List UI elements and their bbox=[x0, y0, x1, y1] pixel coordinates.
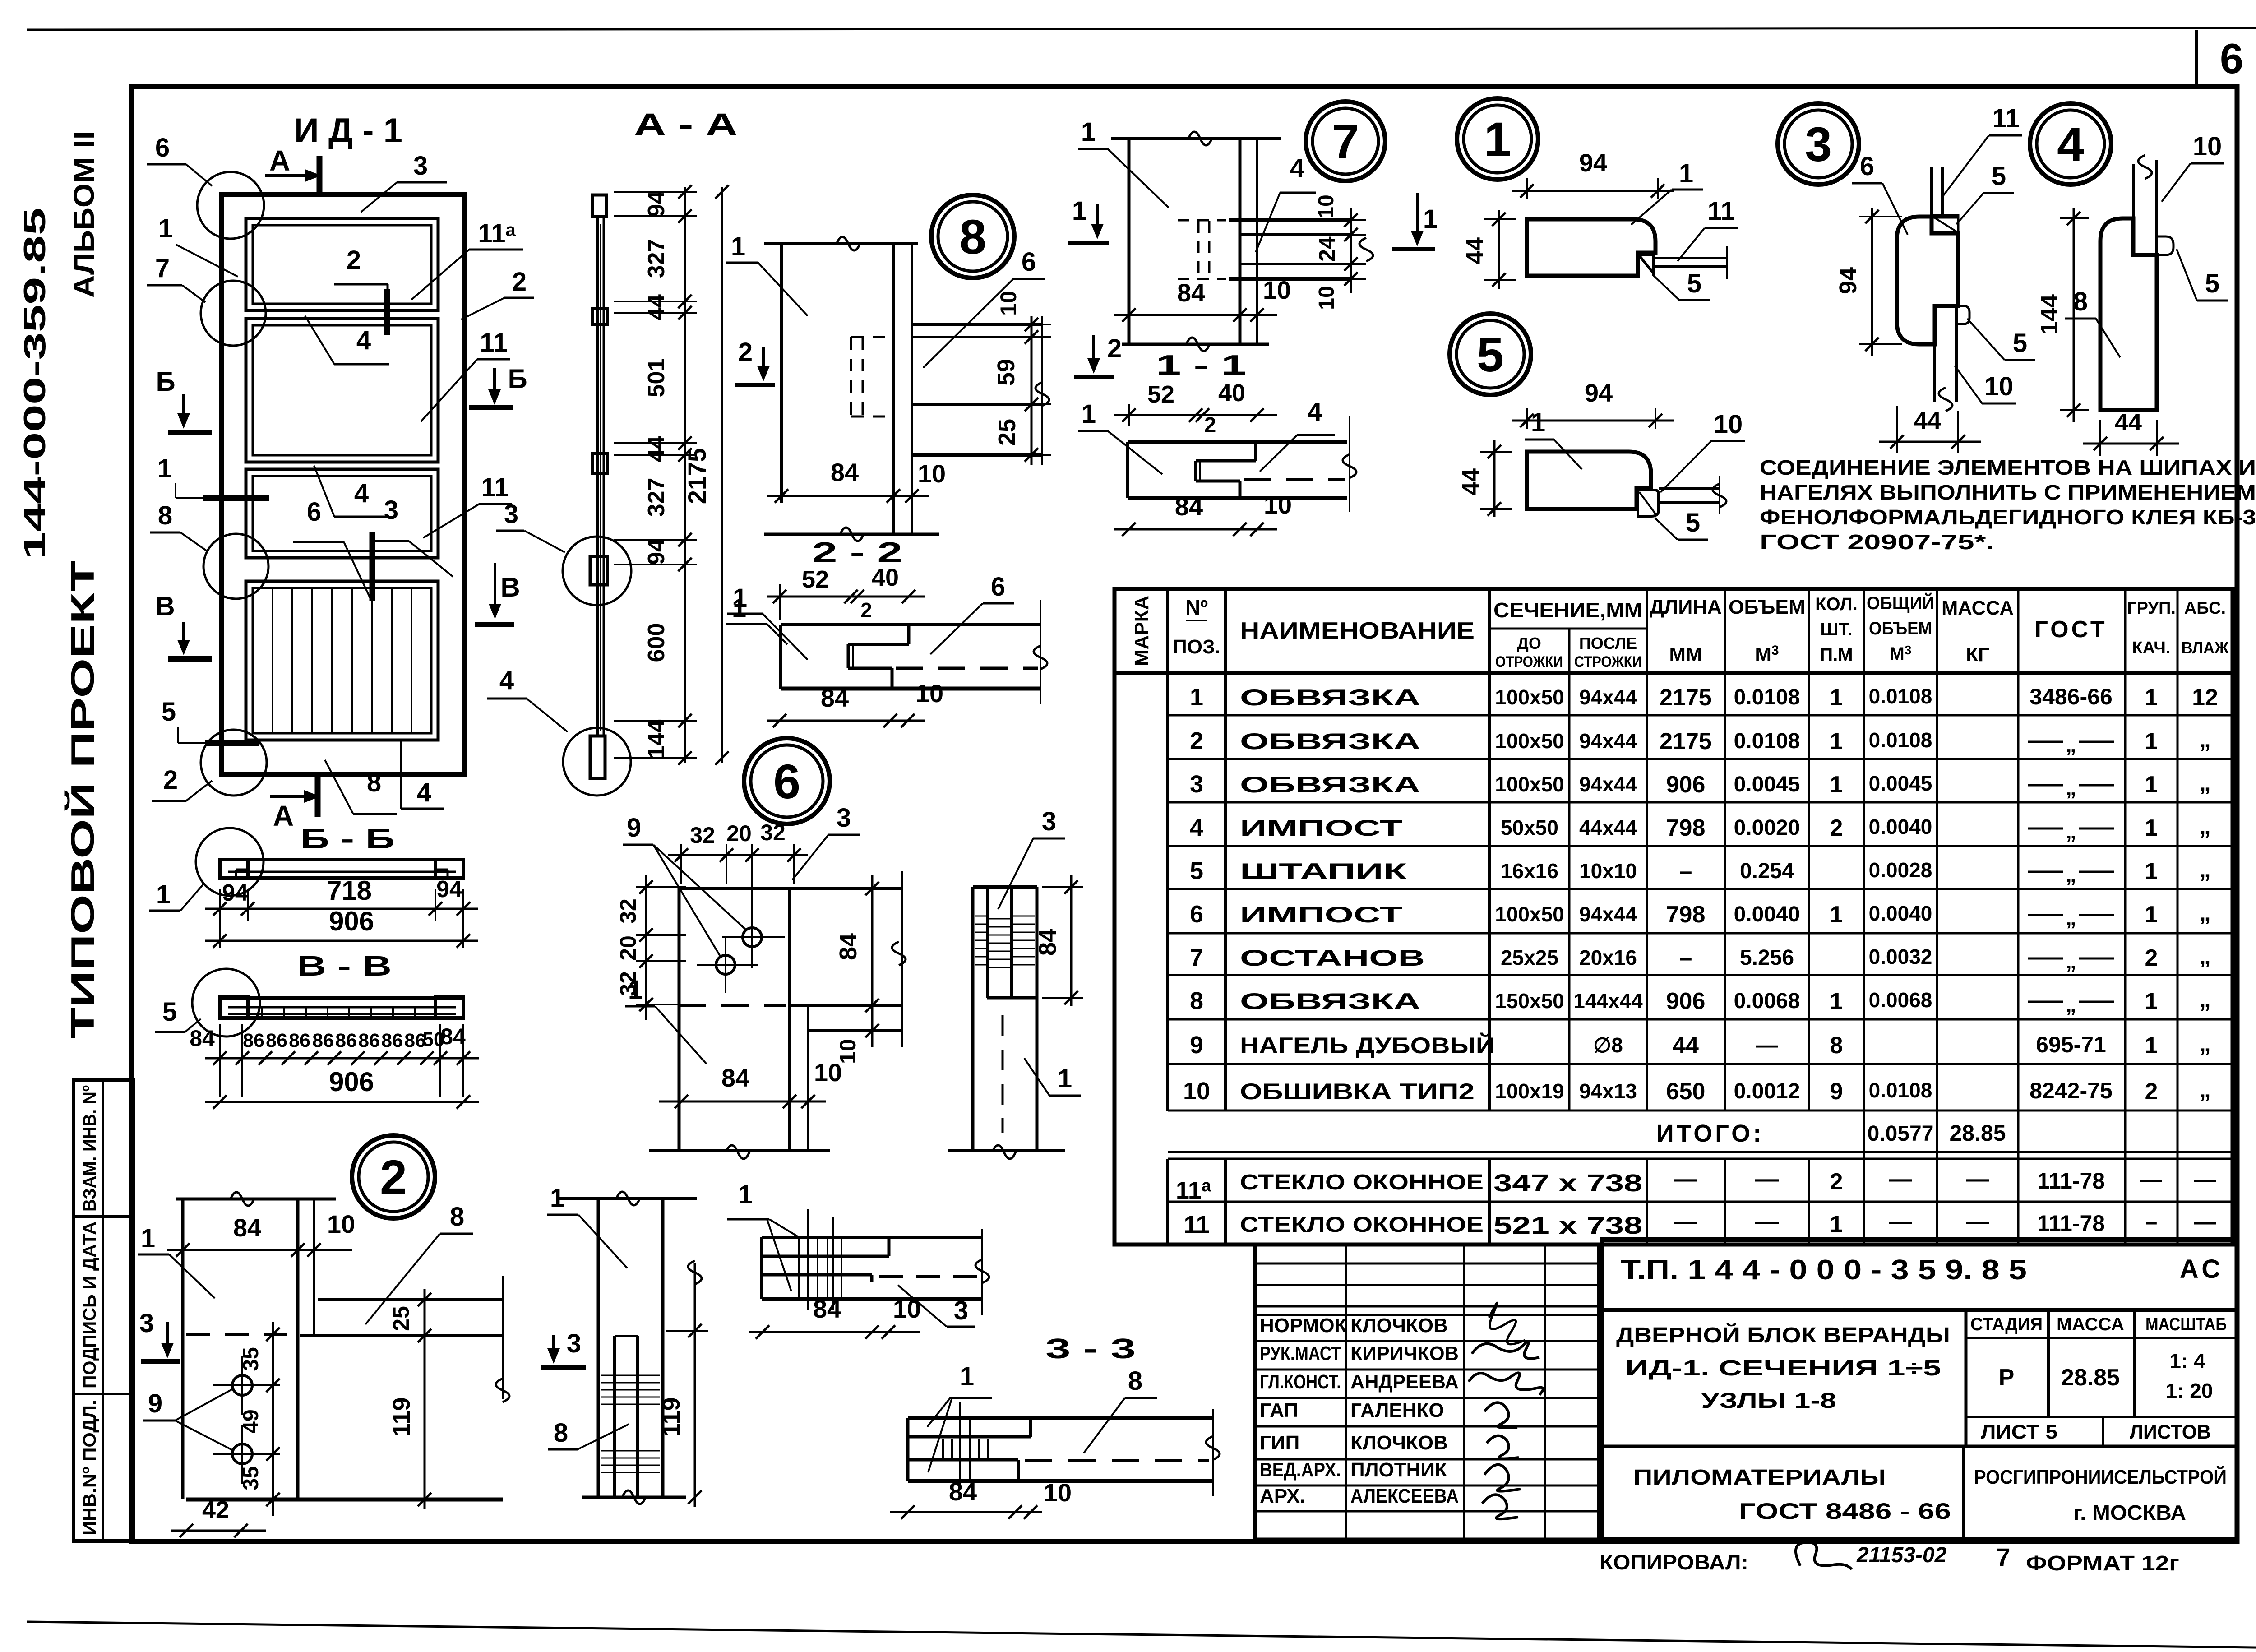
svg-text:ПОДПИСЬ И ДАТА: ПОДПИСЬ И ДАТА bbox=[80, 1222, 100, 1388]
svg-text:1 - 1: 1 - 1 bbox=[1156, 350, 1246, 381]
node ref circle 3 on A-A bbox=[563, 537, 631, 605]
svg-text:КАЧ.: КАЧ. bbox=[2132, 639, 2171, 657]
1-1 bar drawing bbox=[1128, 440, 1347, 444]
node 8 impost branch bbox=[912, 323, 1042, 326]
svg-text:84: 84 bbox=[949, 1477, 977, 1506]
svg-text:0.0577: 0.0577 bbox=[1868, 1122, 1934, 1146]
svg-text:1: 20: 1: 20 bbox=[2166, 1379, 2213, 1402]
svg-text:2: 2 bbox=[347, 245, 361, 275]
Б-Б dimension 906 bbox=[205, 940, 478, 942]
node 1 glass strip bbox=[1655, 257, 1727, 259]
door pane 3 sash bbox=[246, 469, 438, 558]
node 7 stile lines bbox=[1111, 137, 1281, 140]
svg-text:119: 119 bbox=[388, 1397, 415, 1436]
svg-text:1: 1 bbox=[1531, 408, 1545, 437]
svg-text:ГАП: ГАП bbox=[1260, 1399, 1298, 1421]
svg-text:В - В: В - В bbox=[297, 951, 392, 982]
svg-text:МАРКА: МАРКА bbox=[1131, 596, 1153, 666]
svg-text:ПОЗ.: ПОЗ. bbox=[1173, 636, 1220, 658]
svg-text:2: 2 bbox=[1107, 334, 1122, 363]
svg-text:ГОСТ 20907-75*.: ГОСТ 20907-75*. bbox=[1760, 530, 1994, 554]
svg-text:0.0108: 0.0108 bbox=[1869, 1078, 1932, 1102]
svg-text:—: — bbox=[1966, 1166, 1989, 1192]
svg-text:1: 1 bbox=[1081, 117, 1096, 147]
node ref circle 8 on elevation bbox=[203, 534, 268, 599]
svg-text:8: 8 bbox=[1190, 987, 1203, 1014]
svg-text:АБС.: АБС. bbox=[2184, 599, 2226, 618]
svg-text:МАССА: МАССА bbox=[1942, 597, 2014, 619]
rail piece cut trace lines bbox=[807, 1209, 809, 1310]
svg-text:АС: АС bbox=[2180, 1254, 2224, 1284]
node 2 top dimension 84 10 bbox=[167, 1249, 352, 1251]
svg-text:ОТРОЖКИ: ОТРОЖКИ bbox=[1495, 653, 1563, 671]
svg-text:44: 44 bbox=[643, 436, 670, 462]
svg-text:21153-02: 21153-02 bbox=[1856, 1543, 1947, 1567]
svg-text:327: 327 bbox=[643, 239, 670, 278]
node 8 bottom dimension 84 10 bbox=[767, 495, 929, 497]
svg-text:49: 49 bbox=[239, 1409, 263, 1433]
svg-text:МАСШТАБ: МАСШТАБ bbox=[2145, 1314, 2227, 1334]
svg-text:8: 8 bbox=[1830, 1032, 1843, 1059]
svg-text:ДЛИНА: ДЛИНА bbox=[1650, 596, 1722, 618]
svg-text:1: 1 bbox=[1484, 112, 1511, 167]
title block outline bbox=[1602, 1240, 2237, 1540]
svg-text:25х25: 25х25 bbox=[1501, 946, 1558, 969]
node 5 dimension 94 bbox=[1526, 408, 1528, 429]
svg-text:„: „ bbox=[2066, 863, 2076, 886]
svg-text:32: 32 bbox=[690, 823, 715, 848]
node 6 bottom dimension 84 10 bbox=[659, 1101, 826, 1103]
svg-text:Б - Б: Б - Б bbox=[300, 824, 395, 855]
svg-text:5: 5 bbox=[1687, 269, 1701, 298]
svg-text:—: — bbox=[2194, 1168, 2216, 1192]
svg-text:1: 1 bbox=[2145, 1032, 2158, 1059]
svg-text:1: 1 bbox=[156, 880, 171, 909]
svg-text:111-78: 111-78 bbox=[2037, 1168, 2105, 1194]
svg-text:7: 7 bbox=[1332, 114, 1359, 169]
svg-text:35: 35 bbox=[239, 1347, 263, 1371]
node 6 plan drawing bbox=[679, 887, 902, 890]
svg-text:86: 86 bbox=[358, 1030, 380, 1051]
svg-text:А: А bbox=[269, 144, 290, 177]
1-1 bottom dimension 84 10 bbox=[1114, 528, 1277, 531]
svg-text:СТЕКЛО ОКОННОЕ: СТЕКЛО ОКОННОЕ bbox=[1240, 1213, 1484, 1237]
sheet number box divider bbox=[2195, 30, 2198, 88]
svg-text:650: 650 bbox=[1666, 1078, 1706, 1105]
svg-text:1: 1 bbox=[2145, 988, 2158, 1014]
table header subdivision line bbox=[1489, 628, 1647, 630]
svg-text:1: 4: 1: 4 bbox=[2169, 1349, 2205, 1373]
node 8 circle bbox=[931, 195, 1014, 278]
svg-text:0.0108: 0.0108 bbox=[1734, 729, 1800, 753]
svg-text:2: 2 bbox=[1830, 815, 1843, 841]
svg-text:906: 906 bbox=[1666, 988, 1706, 1014]
svg-text:86: 86 bbox=[243, 1030, 264, 1051]
svg-text:94х44: 94х44 bbox=[1579, 902, 1637, 926]
svg-text:ОСТАНОВ: ОСТАНОВ bbox=[1240, 945, 1425, 971]
svg-text:94х13: 94х13 bbox=[1579, 1079, 1637, 1103]
svg-text:0.0032: 0.0032 bbox=[1869, 945, 1932, 968]
svg-text:5: 5 bbox=[1992, 162, 2006, 191]
svg-text:10: 10 bbox=[1183, 1078, 1210, 1105]
svg-text:86: 86 bbox=[312, 1030, 334, 1051]
svg-text:86: 86 bbox=[335, 1030, 357, 1051]
node 4 dimension 44 bbox=[2083, 443, 2179, 445]
svg-text:1: 1 bbox=[1679, 159, 1693, 188]
svg-text:И Д - 1: И Д - 1 bbox=[294, 111, 402, 150]
svg-text:МАССА: МАССА bbox=[2057, 1314, 2124, 1334]
svg-text:ДО: ДО bbox=[1517, 634, 1541, 652]
svg-text:0.0028: 0.0028 bbox=[1869, 858, 1932, 882]
node 4 cladding strip up bbox=[2132, 164, 2135, 255]
svg-text:0.0040: 0.0040 bbox=[1869, 815, 1932, 838]
svg-text:0.0108: 0.0108 bbox=[1734, 685, 1800, 709]
mid stile hatch lower bbox=[601, 1450, 660, 1452]
svg-text:П.М: П.М bbox=[1820, 645, 1853, 665]
svg-text:10: 10 bbox=[327, 1210, 355, 1238]
mid stile dimension 119 bbox=[694, 1263, 696, 1507]
node ref circle 6 on elevation bbox=[197, 172, 264, 239]
svg-text:–: – bbox=[1679, 945, 1692, 971]
svg-text:ИМПОСТ: ИМПОСТ bbox=[1240, 815, 1402, 841]
svg-text:600: 600 bbox=[643, 623, 670, 662]
paper top edge line bbox=[27, 28, 2256, 30]
node 8 hidden tenon dashed bbox=[850, 337, 852, 416]
svg-text:84: 84 bbox=[1177, 278, 1205, 307]
svg-text:28.85: 28.85 bbox=[1949, 1120, 2006, 1146]
signature table grid bbox=[1255, 1245, 1599, 1540]
svg-text:84: 84 bbox=[835, 933, 862, 960]
node 2 stile lines bbox=[176, 1198, 336, 1201]
svg-text:ДВЕРНОЙ БЛОК ВЕРАНДЫ: ДВЕРНОЙ БЛОК ВЕРАНДЫ bbox=[1616, 1323, 1950, 1347]
svg-text:0.0108: 0.0108 bbox=[1869, 728, 1932, 752]
svg-text:1: 1 bbox=[2145, 728, 2158, 754]
svg-text:0.0068: 0.0068 bbox=[1734, 989, 1800, 1013]
node 3 circle bbox=[1778, 103, 1859, 185]
svg-text:4: 4 bbox=[417, 778, 431, 807]
svg-text:ОБШИВКА ТИП2: ОБШИВКА ТИП2 bbox=[1240, 1079, 1475, 1104]
svg-text:ИНВ.Nº ПОДЛ.: ИНВ.Nº ПОДЛ. bbox=[80, 1400, 100, 1535]
svg-text:6: 6 bbox=[991, 572, 1005, 602]
svg-text:УЗЛЫ 1-8: УЗЛЫ 1-8 bbox=[1701, 1389, 1836, 1413]
svg-text:94: 94 bbox=[643, 539, 670, 565]
svg-text:3: 3 bbox=[1190, 771, 1203, 798]
svg-text:ММ: ММ bbox=[1669, 643, 1702, 666]
svg-text:44: 44 bbox=[1461, 237, 1489, 264]
svg-text:Nº: Nº bbox=[1185, 596, 1208, 619]
node 2 hidden dashed line bbox=[186, 1333, 292, 1336]
node 6 right dimension 84 10 bbox=[871, 875, 874, 1047]
node 5 piece drawing bbox=[1527, 452, 1651, 509]
svg-text:ВЛАЖ: ВЛАЖ bbox=[2182, 639, 2229, 657]
svg-text:3: 3 bbox=[413, 151, 428, 180]
svg-text:1: 1 bbox=[157, 454, 172, 483]
svg-text:84: 84 bbox=[721, 1064, 749, 1092]
node 1 circle bbox=[1457, 98, 1538, 180]
svg-text:5.256: 5.256 bbox=[1740, 946, 1794, 970]
svg-text:94х44: 94х44 bbox=[1579, 729, 1637, 753]
svg-text:94: 94 bbox=[436, 876, 462, 902]
svg-text:6: 6 bbox=[1860, 152, 1874, 181]
2-2 hidden line dashed bbox=[896, 667, 1038, 670]
svg-text:1: 1 bbox=[733, 583, 747, 613]
svg-text:1: 1 bbox=[2145, 858, 2158, 884]
svg-text:ТИПОВОЙ ПРОЕКТ: ТИПОВОЙ ПРОЕКТ bbox=[64, 560, 101, 1039]
2-2 step cut bbox=[907, 625, 911, 644]
svg-text:20х16: 20х16 bbox=[1579, 946, 1637, 969]
svg-text:1: 1 bbox=[960, 1362, 974, 1391]
svg-text:7: 7 bbox=[155, 254, 170, 283]
svg-text:В: В bbox=[155, 591, 175, 621]
A-A door leaf profile bbox=[596, 217, 599, 736]
svg-text:КЛОЧКОВ: КЛОЧКОВ bbox=[1350, 1314, 1448, 1337]
3-3 dimension 84 10 bbox=[890, 1511, 1042, 1513]
svg-text:„: „ bbox=[2199, 813, 2211, 839]
svg-text:АЛЕКСЕЕВА: АЛЕКСЕЕВА bbox=[1350, 1485, 1459, 1507]
svg-text:5: 5 bbox=[2205, 269, 2219, 298]
svg-text:1: 1 bbox=[2145, 815, 2158, 841]
node 3 tenon strip up bbox=[1930, 167, 1933, 233]
svg-text:86: 86 bbox=[289, 1030, 310, 1051]
svg-text:2: 2 bbox=[380, 1150, 407, 1204]
svg-text:44: 44 bbox=[2115, 409, 2142, 436]
2-2 top dimension 52 2 40 bbox=[767, 596, 925, 598]
svg-text:84: 84 bbox=[813, 1295, 841, 1323]
svg-text:ГРУП.: ГРУП. bbox=[2127, 599, 2176, 618]
node 1 piece drawing bbox=[1527, 219, 1655, 276]
svg-text:А - А: А - А bbox=[634, 107, 738, 142]
door pane 4 boarded panel bbox=[246, 581, 438, 740]
svg-text:ЛИСТ 5: ЛИСТ 5 bbox=[1981, 1421, 2057, 1443]
svg-text:Р: Р bbox=[1999, 1365, 2015, 1391]
svg-text:1: 1 bbox=[1830, 685, 1843, 711]
svg-text:„: „ bbox=[2066, 906, 2076, 930]
svg-text:9: 9 bbox=[148, 1389, 162, 1418]
hinge mark upper bbox=[384, 289, 390, 335]
mid stile tenon bbox=[613, 1336, 616, 1497]
svg-text:84: 84 bbox=[821, 684, 849, 712]
node 3 dimension 94 bbox=[1871, 208, 1873, 356]
svg-text:94х44: 94х44 bbox=[1579, 773, 1637, 796]
node 8 stile lines bbox=[764, 242, 918, 245]
svg-text:1: 1 bbox=[1190, 684, 1203, 711]
svg-text:2175: 2175 bbox=[1660, 728, 1712, 754]
svg-text:10: 10 bbox=[1714, 410, 1743, 439]
svg-text:—: — bbox=[1889, 1166, 1912, 1192]
svg-text:1: 1 bbox=[141, 1224, 155, 1253]
svg-text:0.0045: 0.0045 bbox=[1734, 773, 1800, 796]
3-3 cut trace lines bbox=[959, 1402, 961, 1489]
svg-text:16х16: 16х16 bbox=[1501, 859, 1558, 883]
svg-text:25: 25 bbox=[994, 419, 1021, 446]
svg-text:3: 3 bbox=[504, 500, 518, 529]
svg-text:6: 6 bbox=[1022, 247, 1036, 277]
title block лист row bbox=[1966, 1416, 2237, 1418]
svg-text:906: 906 bbox=[329, 906, 374, 936]
svg-text:3: 3 bbox=[1805, 117, 1832, 171]
svg-text:„: „ bbox=[2199, 727, 2211, 753]
svg-text:1: 1 bbox=[2145, 902, 2158, 928]
svg-text:АНДРЕЕВА: АНДРЕЕВА bbox=[1350, 1371, 1459, 1393]
svg-text:4: 4 bbox=[354, 479, 369, 508]
svg-text:84: 84 bbox=[190, 1026, 215, 1051]
specification table grid bbox=[1114, 589, 2233, 1245]
svg-text:521 х 738: 521 х 738 bbox=[1493, 1212, 1642, 1239]
svg-text:52: 52 bbox=[802, 566, 829, 593]
svg-text:798: 798 bbox=[1666, 902, 1706, 928]
svg-text:4: 4 bbox=[1308, 397, 1322, 426]
svg-text:144х44: 144х44 bbox=[1573, 989, 1643, 1013]
svg-text:ГОСТ: ГОСТ bbox=[2034, 616, 2107, 643]
svg-text:10: 10 bbox=[1264, 491, 1292, 519]
svg-text:8: 8 bbox=[959, 209, 986, 264]
svg-text:КЛОЧКОВ: КЛОЧКОВ bbox=[1350, 1432, 1448, 1454]
node 6 side hidden tenon dashed bbox=[1002, 1015, 1004, 1133]
svg-text:8: 8 bbox=[554, 1418, 568, 1448]
mid stile hatch upper bbox=[601, 1375, 660, 1376]
svg-text:4: 4 bbox=[499, 666, 514, 695]
title block материалы cell bbox=[1602, 1445, 2237, 1448]
door pane 1 sash bbox=[246, 218, 438, 310]
svg-text:СТЕКЛО ОКОННОЕ: СТЕКЛО ОКОННОЕ bbox=[1240, 1171, 1484, 1194]
svg-text:—: — bbox=[1755, 1166, 1779, 1192]
svg-text:20: 20 bbox=[615, 935, 641, 961]
svg-text:ПОСЛЕ: ПОСЛЕ bbox=[1579, 634, 1637, 652]
svg-text:119: 119 bbox=[658, 1397, 685, 1436]
rail piece hidden dashed bbox=[879, 1275, 980, 1278]
node 5 cladding strip bbox=[1659, 487, 1720, 490]
node 8 right dimension chain 10 59 25 bbox=[1011, 324, 1051, 325]
svg-text:„: „ bbox=[2199, 770, 2211, 796]
svg-text:СОЕДИНЕНИЕ ЭЛЕМЕНТОВ НА ШИПАХ: СОЕДИНЕНИЕ ЭЛЕМЕНТОВ НА ШИПАХ И bbox=[1760, 456, 2256, 479]
svg-text:„: „ bbox=[2199, 943, 2211, 969]
svg-text:2: 2 bbox=[1830, 1169, 1843, 1195]
svg-text:ОБВЯЗКА: ОБВЯЗКА bbox=[1240, 772, 1420, 797]
node 2 bottom dimension 42 bbox=[171, 1530, 266, 1532]
svg-text:501: 501 bbox=[643, 358, 670, 398]
node 2 nagel holes bbox=[232, 1375, 252, 1395]
svg-text:РОСГИПРОНИИСЕЛЬСТРОЙ: РОСГИПРОНИИСЕЛЬСТРОЙ bbox=[1974, 1465, 2227, 1488]
svg-text:ГАЛЕНКО: ГАЛЕНКО bbox=[1350, 1399, 1444, 1421]
svg-text:„: „ bbox=[2066, 949, 2076, 973]
svg-text:ШТАПИК: ШТАПИК bbox=[1240, 859, 1407, 884]
svg-text:11: 11 bbox=[1183, 1211, 1209, 1238]
svg-text:1: 1 bbox=[1830, 728, 1843, 754]
node 5 shtapik piece bbox=[1638, 490, 1659, 516]
svg-text:—: — bbox=[2140, 1168, 2162, 1192]
svg-text:ИМПОСТ: ИМПОСТ bbox=[1240, 902, 1402, 927]
node 4 dimension 144 bbox=[2073, 208, 2075, 422]
mid stile bottom line bbox=[582, 1496, 686, 1499]
svg-text:10: 10 bbox=[915, 679, 943, 708]
node ref circle 1 on Б-Б bbox=[196, 828, 264, 896]
копировал signature bbox=[1796, 1542, 1852, 1569]
В-В board ticks bbox=[261, 1007, 263, 1018]
svg-text:ОБВЯЗКА: ОБВЯЗКА bbox=[1240, 989, 1420, 1014]
svg-text:32: 32 bbox=[760, 820, 786, 845]
svg-text:ПЛОТНИК: ПЛОТНИК bbox=[1350, 1459, 1447, 1481]
svg-text:8242-75: 8242-75 bbox=[2029, 1078, 2113, 1103]
node ref circle 5 on В-В bbox=[192, 969, 260, 1037]
svg-text:ФОРМАТ 12г: ФОРМАТ 12г bbox=[2026, 1551, 2179, 1575]
svg-text:3: 3 bbox=[139, 1309, 154, 1338]
node 3 dimension 44 bbox=[1879, 441, 1981, 443]
svg-text:1: 1 bbox=[1423, 204, 1438, 234]
svg-text:10: 10 bbox=[1984, 372, 2014, 401]
3-3 hidden dashed bbox=[1025, 1459, 1209, 1462]
svg-text:84: 84 bbox=[1175, 492, 1203, 521]
svg-text:8: 8 bbox=[1128, 1366, 1142, 1396]
svg-text:347 х 738: 347 х 738 bbox=[1493, 1170, 1642, 1197]
svg-text:5: 5 bbox=[1686, 508, 1700, 537]
node 6 nagel holes bbox=[743, 928, 762, 947]
svg-text:9: 9 bbox=[627, 813, 641, 842]
svg-text:„: „ bbox=[2066, 993, 2076, 1016]
1-1 step cut bbox=[1254, 442, 1257, 461]
svg-text:86: 86 bbox=[381, 1030, 403, 1051]
svg-text:12: 12 bbox=[2192, 685, 2218, 711]
svg-text:94: 94 bbox=[222, 880, 248, 906]
svg-text:44х44: 44х44 bbox=[1579, 816, 1637, 839]
svg-text:3: 3 bbox=[837, 803, 851, 833]
node 7 hidden dashed bbox=[1197, 221, 1200, 280]
svg-text:1: 1 bbox=[2145, 772, 2158, 798]
svg-text:8: 8 bbox=[158, 501, 172, 530]
svg-text:Б: Б bbox=[508, 364, 527, 394]
svg-text:0.0040: 0.0040 bbox=[1869, 902, 1932, 925]
svg-text:10: 10 bbox=[1315, 286, 1339, 310]
svg-text:3: 3 bbox=[1042, 807, 1056, 836]
svg-text:ВЕД.АРХ.: ВЕД.АРХ. bbox=[1260, 1459, 1341, 1481]
node 4 shtapik bbox=[2157, 236, 2173, 255]
svg-text:28.85: 28.85 bbox=[2061, 1365, 2120, 1391]
svg-text:НАГЕЛЯХ ВЫПОЛНИТЬ С ПРИМЕНЕНИЕ: НАГЕЛЯХ ВЫПОЛНИТЬ С ПРИМЕНЕНИЕМ bbox=[1760, 481, 2256, 504]
svg-text:ОБЪЕМ: ОБЪЕМ bbox=[1729, 596, 1805, 618]
svg-text:327: 327 bbox=[643, 478, 670, 517]
node ref circle 2 on elevation bbox=[201, 730, 267, 796]
rail piece hatch bbox=[798, 1239, 800, 1298]
svg-text:906: 906 bbox=[329, 1067, 374, 1097]
1-1 top dimension 52 2 40 bbox=[1114, 414, 1277, 416]
node 1 dimension 44 bbox=[1498, 210, 1500, 289]
svg-text:ГОСТ 8486 - 66: ГОСТ 8486 - 66 bbox=[1739, 1499, 1951, 1524]
svg-text:ПИЛОМАТЕРИАЛЫ: ПИЛОМАТЕРИАЛЫ bbox=[1633, 1466, 1886, 1490]
svg-text:„: „ bbox=[2066, 733, 2076, 756]
svg-text:35: 35 bbox=[239, 1466, 263, 1490]
svg-text:5: 5 bbox=[2013, 329, 2027, 358]
svg-text:94: 94 bbox=[1585, 379, 1613, 407]
svg-text:10: 10 bbox=[996, 291, 1021, 316]
node 2 dimension 35 49 35 bbox=[272, 1322, 274, 1516]
svg-text:8: 8 bbox=[2073, 287, 2088, 316]
svg-text:10: 10 bbox=[2193, 132, 2222, 161]
svg-text:6: 6 bbox=[1190, 901, 1203, 928]
title block project number row bbox=[1602, 1308, 2237, 1312]
svg-text:КГ: КГ bbox=[1966, 643, 1989, 666]
svg-text:25: 25 bbox=[388, 1306, 414, 1331]
svg-text:СТАДИЯ: СТАДИЯ bbox=[1970, 1314, 2043, 1334]
svg-text:84: 84 bbox=[1034, 929, 1061, 956]
svg-text:2 - 2: 2 - 2 bbox=[812, 537, 902, 568]
svg-text:42: 42 bbox=[202, 1496, 229, 1523]
svg-text:32: 32 bbox=[615, 898, 641, 924]
svg-text:5: 5 bbox=[1477, 327, 1504, 382]
door pane 2 sash bbox=[246, 319, 438, 462]
svg-text:КИРИЧКОВ: КИРИЧКОВ bbox=[1350, 1342, 1459, 1365]
svg-text:44: 44 bbox=[1457, 468, 1484, 495]
svg-text:ОБЩИЙ: ОБЩИЙ bbox=[1867, 592, 1934, 613]
node 6 side view bars bbox=[973, 885, 1037, 889]
